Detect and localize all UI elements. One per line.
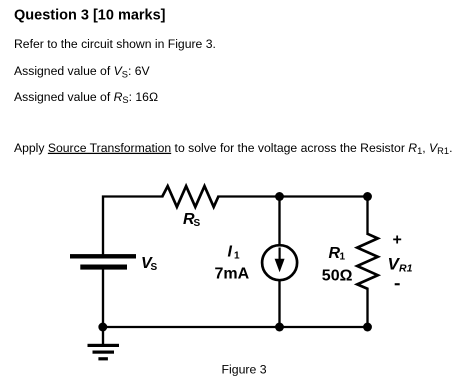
svg-text:1: 1 [234,251,240,262]
svg-text:1: 1 [340,252,346,263]
svg-text:7mA: 7mA [215,265,250,282]
svg-text:Figure 3: Figure 3 [222,363,267,377]
svg-text:S: S [194,218,201,229]
svg-text:Assigned value of VS: 6V: Assigned value of VS: 6V [14,64,151,79]
svg-text:+: + [393,232,402,249]
svg-text:Question 3 [10 marks]: Question 3 [10 marks] [14,8,166,24]
svg-text:Assigned value of RS: 16Ω: Assigned value of RS: 16Ω [14,90,158,105]
svg-text:50Ω: 50Ω [322,267,353,284]
svg-text:Refer to the circuit shown in: Refer to the circuit shown in Figure 3. [14,37,216,51]
svg-text:I: I [228,244,233,261]
svg-text:R1: R1 [399,263,413,275]
svg-text:Apply Source Transformation to: Apply Source Transformation to solve for… [14,141,452,156]
svg-text:S: S [151,262,158,273]
